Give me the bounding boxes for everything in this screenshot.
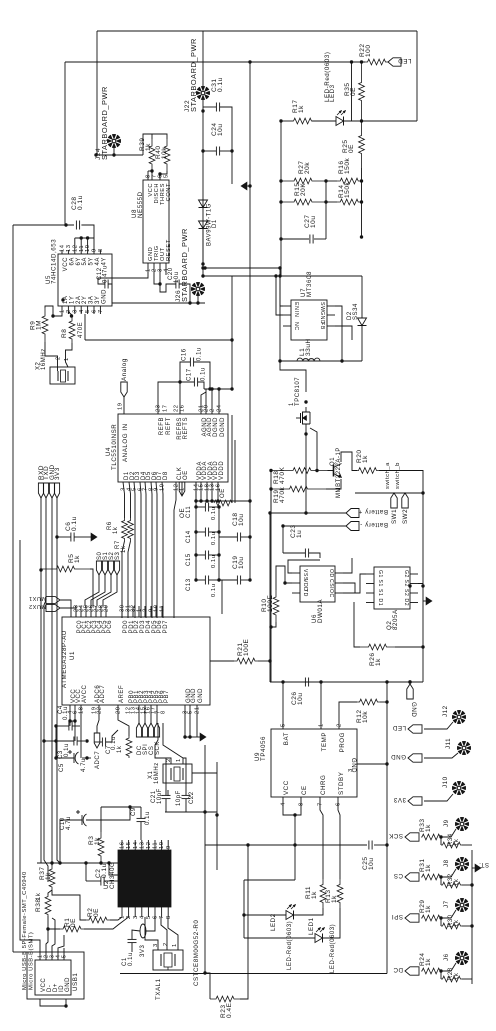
junction [188, 301, 191, 304]
junction [279, 200, 282, 203]
flag CS net [393, 872, 419, 881]
flag SW2 [402, 493, 409, 524]
wire avcc pin [80, 705, 82, 758]
svg-text:6: 6 [153, 915, 159, 919]
wire u5 stub y340 [84, 314, 86, 340]
junction [269, 625, 272, 628]
wire c20r [179, 284, 190, 303]
wire gnd bus [51, 498, 53, 863]
wire r2 out [462, 884, 472, 886]
resistor R35 [359, 62, 365, 121]
svg-text:C22: C22 [189, 791, 195, 804]
label J22 [184, 100, 191, 112]
wire j10 [424, 794, 453, 801]
capacitor C1 [128, 939, 137, 942]
wire to wheel [441, 869, 456, 877]
wire trig [154, 275, 176, 292]
svg-text:OE: OE [183, 470, 189, 480]
svg-text:1k: 1k [311, 891, 318, 899]
svg-text:1k: 1k [362, 455, 369, 463]
capacitor C24 [216, 147, 219, 156]
svg-text:0.1u: 0.1u [201, 367, 207, 381]
resistor R4 [126, 736, 132, 758]
wire rail x281 [280, 121, 282, 276]
capacitor C13 [205, 576, 208, 585]
junction [178, 380, 181, 383]
svg-text:STARBOARD_PWR: STARBOARD_PWR [189, 38, 198, 112]
svg-text:470k: 470k [279, 487, 286, 503]
svg-text:470K: 470K [279, 467, 286, 484]
wire C27 row [281, 238, 309, 240]
junction [340, 359, 343, 362]
svg-text:S2: S2 [403, 589, 409, 596]
svg-text:3: 3 [133, 915, 139, 919]
junction [278, 266, 281, 269]
junction [360, 200, 363, 203]
junction [408, 680, 411, 683]
wire usb dp [52, 918, 55, 952]
junction [421, 645, 424, 648]
svg-text:D1: D1 [377, 599, 383, 607]
wire r37 top [51, 863, 53, 866]
wire J24 pin [113, 148, 115, 155]
IC U2 CH340G black body [118, 850, 171, 907]
wire vcc rail [55, 726, 57, 758]
wire c7 lead2 [106, 730, 118, 742]
flag Analog net [121, 358, 128, 397]
capacitor C21 [162, 795, 171, 798]
svg-text:ATMEGA328P-AU: ATMEGA328P-AU [61, 630, 68, 688]
resistor R24 [421, 968, 441, 974]
svg-text:USB1: USB1 [72, 973, 79, 991]
wire sw row [355, 492, 423, 494]
wire r2 out [462, 844, 472, 846]
svg-text:S1: S1 [377, 589, 383, 596]
junction [248, 184, 251, 187]
svg-text:8: 8 [166, 915, 172, 919]
label J26 [175, 290, 182, 302]
svg-text:switch_a: switch_a [385, 462, 391, 489]
svg-text:8: 8 [98, 248, 104, 252]
svg-text:5: 5 [188, 710, 194, 714]
svg-text:PD7: PD7 [163, 620, 169, 633]
wire gnd row [185, 736, 197, 738]
flag MUX1 [29, 595, 60, 604]
svg-text:3: 3 [72, 309, 78, 313]
wire bus b [127, 600, 129, 618]
svg-text:74HC14D,653: 74HC14D,653 [51, 239, 58, 284]
junction [248, 60, 251, 63]
svg-text:20K: 20K [300, 183, 307, 196]
wire cap lead [196, 579, 205, 581]
svg-text:Battery -: Battery - [360, 521, 388, 528]
svg-text:2: 2 [337, 723, 343, 727]
flag TXD [43, 466, 50, 498]
svg-text:10u: 10u [217, 124, 224, 137]
svg-text:0.1u: 0.1u [211, 584, 217, 597]
resistor R27 [281, 178, 325, 184]
svg-text:2Y: 2Y [82, 296, 88, 304]
wire c10r [86, 807, 130, 820]
junction [201, 274, 204, 277]
resistor R20 [356, 468, 379, 474]
wire clk net [174, 482, 176, 618]
ferrite bead L2 [140, 924, 146, 938]
junction [128, 805, 131, 808]
wire riser x326 [325, 181, 327, 239]
junction [439, 969, 442, 972]
label J8 [443, 859, 450, 867]
wire c5 row [56, 757, 74, 759]
junction [315, 469, 318, 472]
connector J26 [191, 282, 205, 296]
capacitor C12 [105, 280, 108, 289]
svg-text:2A: 2A [76, 296, 82, 304]
svg-text:3V3: 3V3 [140, 945, 146, 957]
flag SCK net [388, 832, 419, 841]
flag S3 [114, 551, 121, 575]
wire row y845 [205, 844, 367, 846]
svg-text:J6: J6 [443, 953, 450, 961]
label J12 [442, 705, 449, 717]
wire r21 ext [210, 660, 234, 662]
svg-text:OD: OD [328, 569, 334, 578]
wire gnd drop [231, 151, 233, 184]
junction [385, 762, 388, 765]
wire sflag [97, 575, 111, 606]
junction [268, 511, 271, 514]
svg-text:150k: 150k [344, 182, 351, 198]
wire D1 net b [122, 541, 125, 618]
wire gate [310, 428, 317, 471]
svg-text:100: 100 [365, 45, 372, 58]
wire rail2 [65, 61, 365, 63]
svg-text:SW2: SW2 [402, 509, 409, 524]
svg-text:21: 21 [195, 706, 201, 714]
wire r3 up [100, 807, 102, 832]
wire r9 hook [45, 306, 53, 316]
wire c31 [203, 106, 216, 108]
wire c1 dn [131, 943, 133, 952]
wire STARBOARD_PWR top rail [97, 30, 417, 32]
wire r1 out [84, 917, 129, 929]
svg-text:100E: 100E [267, 595, 274, 612]
svg-text:CHRG: CHRG [320, 775, 327, 795]
wire x2 b [66, 343, 73, 367]
resistor R22 [365, 59, 388, 65]
connector J7 [455, 898, 469, 912]
junction [274, 274, 277, 277]
wire u9 gnd [357, 763, 387, 765]
IC U5 74HC14D box [58, 254, 112, 306]
svg-text:10u: 10u [310, 216, 317, 229]
junction [208, 387, 211, 390]
wire C27 right [314, 238, 326, 240]
IC U1 ATMEGA328P-AU box [62, 617, 210, 705]
svg-text:AVCC: AVCC [82, 684, 88, 703]
wire cap lead2 [209, 506, 219, 508]
svg-text:6Y: 6Y [76, 257, 82, 265]
svg-text:R8: R8 [61, 329, 68, 338]
label J7 [443, 900, 450, 908]
junction [279, 119, 282, 122]
wire x2 a [45, 342, 58, 371]
connector USB1 inner box [35, 960, 71, 995]
junction [408, 680, 411, 683]
svg-text:3V3: 3V3 [54, 467, 61, 480]
svg-text:C17: C17 [187, 368, 193, 381]
svg-text:1k: 1k [298, 105, 305, 113]
wire hook R39R40 [143, 134, 167, 155]
svg-text:ADC7: ADC7 [100, 685, 106, 703]
flag MUX2 [29, 603, 60, 612]
resistor R32 [441, 882, 462, 888]
svg-text:20k: 20k [304, 162, 311, 174]
svg-text:5Y: 5Y [89, 257, 95, 265]
wire D1 net [123, 482, 125, 518]
svg-text:1k: 1k [425, 958, 432, 966]
junction [230, 387, 233, 390]
svg-text:TLC5510INSR: TLC5510INSR [111, 424, 118, 470]
wire r2 out [110, 917, 122, 920]
wire u5 top row [75, 237, 94, 239]
wire c4 row [56, 725, 69, 727]
svg-text:1k: 1k [94, 837, 101, 845]
pin1 mark [61, 298, 64, 301]
svg-text:J7: J7 [443, 900, 450, 908]
wire c31r [220, 107, 232, 151]
wire cap lead [196, 506, 205, 508]
junction [293, 843, 296, 846]
capacitor C26 [305, 678, 308, 687]
junction [279, 179, 282, 182]
svg-text:GND: GND [410, 702, 417, 717]
wire riser x337 [326, 180, 337, 182]
svg-text:S1: S1 [377, 580, 383, 587]
svg-text:0E: 0E [70, 918, 77, 927]
resistor R8 [69, 317, 75, 343]
junction [281, 680, 284, 683]
junction [55, 535, 58, 538]
svg-text:10u: 10u [238, 557, 245, 570]
wire cap lead2 [209, 579, 219, 581]
wire r21 row ext [209, 660, 211, 662]
resistor R9 [42, 308, 48, 342]
junction [201, 262, 204, 265]
svg-text:5A: 5A [82, 257, 88, 265]
svg-text:PROG: PROG [339, 732, 346, 752]
junction [324, 179, 327, 182]
svg-text:CSTCE8M00G52-R0: CSTCE8M00G52-R0 [193, 920, 200, 986]
inductor L1 [297, 358, 320, 361]
wire c3 row [56, 740, 74, 742]
svg-text:8205A: 8205A [392, 609, 399, 630]
wire c1 up [132, 930, 140, 939]
svg-text:switch_b: switch_b [395, 462, 401, 489]
wire sflag [85, 575, 99, 606]
junction [360, 119, 363, 122]
svg-text:NE555D: NE555D [137, 191, 144, 218]
wire vdd rowline [196, 500, 232, 502]
svg-text:J8: J8 [443, 859, 450, 867]
wire D bus [145, 482, 146, 618]
wire l2 r [146, 917, 155, 931]
wire row y682 [270, 681, 423, 683]
wire x280 down [279, 276, 281, 361]
svg-text:16MHz: 16MHz [41, 348, 47, 370]
connector J6 [455, 951, 469, 965]
svg-text:STARBOARD_PWR: STARBOARD_PWR [180, 228, 189, 302]
wire J22 up [202, 31, 204, 86]
svg-text:0.1u: 0.1u [101, 863, 108, 878]
svg-text:1k: 1k [425, 905, 432, 913]
junction [158, 172, 161, 175]
svg-text:20: 20 [116, 706, 122, 714]
wire xtal1 [155, 723, 171, 758]
svg-text:PC6: PC6 [107, 620, 113, 633]
wire r1 in [48, 916, 60, 929]
junction [304, 511, 307, 514]
wire r2 drop [440, 918, 442, 926]
wire vss [288, 560, 320, 573]
wire q1 c [341, 452, 357, 471]
resistor R5 [41, 566, 90, 572]
wire r26 l [354, 602, 360, 647]
junction [42, 739, 45, 742]
capacitor C6 [71, 533, 74, 542]
junction [350, 60, 353, 63]
wire D bus [156, 482, 157, 618]
svg-text:LED-Red(0603): LED-Red(0603) [287, 921, 293, 970]
wire tpc down [305, 429, 307, 513]
connector J24 [107, 134, 121, 148]
wire c2r [104, 880, 118, 882]
svg-text:4Y: 4Y [101, 257, 107, 265]
junction [385, 843, 388, 846]
wire caprail r [218, 507, 220, 580]
wire r12 out [380, 701, 387, 703]
wire r11 top [320, 797, 323, 879]
wire c23r [309, 553, 320, 558]
svg-text:DGND: DGND [220, 417, 226, 437]
resistor R18 [271, 468, 333, 474]
svg-text:LED1: LED1 [308, 917, 315, 935]
wire D2 net [129, 482, 131, 518]
junction [230, 338, 233, 341]
junction [46, 927, 49, 930]
flag S1 [102, 551, 109, 575]
resistor R14 [337, 199, 362, 205]
junction [196, 301, 199, 304]
wire oe net [181, 482, 183, 496]
label D1 [207, 203, 213, 246]
svg-text:G1: G1 [377, 570, 383, 578]
junction [80, 236, 83, 239]
junction [421, 491, 424, 494]
wire xtal row [165, 811, 217, 813]
wire D bus [151, 482, 152, 618]
resistor R21 [234, 658, 258, 664]
capacitor C15 [205, 551, 208, 560]
wire y807 [101, 806, 141, 808]
resistor R15 [281, 199, 325, 205]
svg-text:J11: J11 [445, 738, 452, 749]
svg-text:S3: S3 [115, 551, 121, 560]
wire led2 r [294, 908, 324, 915]
svg-text:1k: 1k [425, 824, 432, 832]
resistor R17 [293, 118, 312, 124]
wire r2 out [462, 978, 472, 980]
svg-text:0.1u: 0.1u [211, 507, 217, 520]
svg-text:8: 8 [299, 802, 305, 806]
svg-text:DW01A: DW01A [317, 599, 324, 623]
svg-text:Micro USB-B 5P-Female-SMT_C409: Micro USB-B 5P-Female-SMT_C40940 [22, 871, 28, 990]
diode D1a [199, 200, 208, 208]
wire agnd stub [201, 392, 206, 414]
svg-text:OE: OE [179, 508, 186, 518]
junction [201, 266, 204, 269]
wire r4 up [118, 705, 129, 736]
resistor R12 [357, 699, 380, 705]
flag DC U1 [136, 723, 141, 737]
svg-text:5: 5 [85, 309, 91, 313]
label LED3 [324, 52, 331, 102]
flag GND [49, 464, 56, 498]
svg-text:TEMP: TEMP [321, 732, 328, 751]
wire r2 out [462, 925, 472, 927]
wire u8 out [159, 275, 161, 284]
wire 109 drop [109, 863, 118, 875]
svg-text:5: 5 [62, 955, 68, 958]
svg-text:GND: GND [391, 753, 406, 760]
IC U4 TLC5510INSR box [118, 414, 228, 482]
wire 555 vcc2 [147, 171, 149, 180]
wire x1 b [183, 758, 186, 795]
junction [421, 584, 424, 587]
svg-text:MT3608: MT3608 [306, 271, 313, 297]
svg-text:10u: 10u [238, 514, 245, 527]
label J11 [445, 738, 452, 749]
svg-text:4A: 4A [95, 257, 101, 265]
wire rail x250 [249, 62, 251, 580]
wire c18 [219, 536, 237, 538]
svg-text:5: 5 [146, 915, 152, 919]
wire usb dm [46, 929, 48, 952]
wire usb vcc [20, 540, 40, 952]
svg-text:ADC7: ADC7 [95, 751, 101, 769]
wire left rail x13 [12, 225, 14, 952]
wire analog pin [123, 397, 125, 414]
svg-text:CE: CE [301, 785, 308, 795]
wire bat [282, 682, 284, 729]
svg-text:Analog: Analog [121, 358, 128, 381]
resistor R38 [45, 895, 51, 916]
svg-text:TPC8107: TPC8107 [295, 377, 301, 406]
resistor R1 [60, 926, 84, 932]
transistor TPC8107 [296, 407, 310, 429]
svg-text:3: 3 [348, 768, 354, 772]
svg-text:SS34: SS34 [353, 303, 359, 320]
diode D2 [358, 318, 367, 326]
svg-text:1k: 1k [74, 555, 81, 563]
wire cap lead2 [209, 531, 219, 533]
junction [158, 282, 161, 285]
junction [269, 487, 272, 490]
svg-text:22: 22 [97, 706, 103, 714]
wire to wheel [441, 963, 456, 971]
wire led1 row [244, 937, 315, 939]
junction [64, 1004, 67, 1007]
